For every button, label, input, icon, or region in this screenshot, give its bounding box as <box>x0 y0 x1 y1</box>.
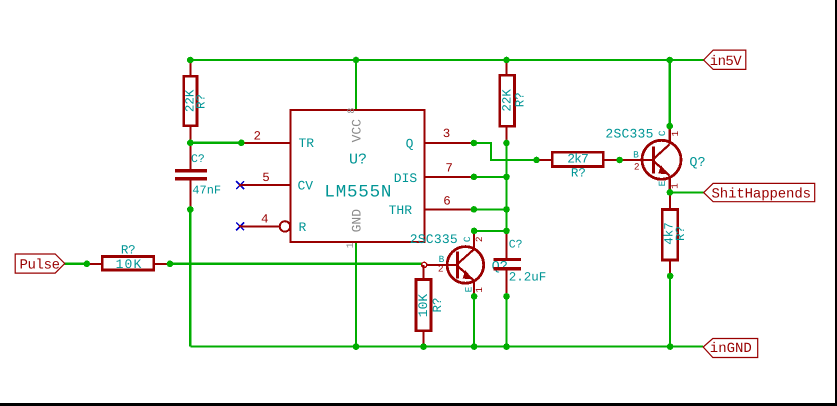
resistor R3 10K horizontal <box>87 244 170 273</box>
svg-text:R?: R? <box>121 244 136 258</box>
svg-text:TR: TR <box>299 136 315 151</box>
junction R5 bottom <box>667 273 674 280</box>
hierarchical label Pulse output <box>15 254 64 273</box>
junction mid net pin7 <box>503 174 510 181</box>
IC U1 LM555N <box>291 108 425 249</box>
capacitor C2 2.2uF <box>494 231 547 297</box>
svg-text:B: B <box>633 150 639 161</box>
wire collector drop to Q1 <box>669 60 671 126</box>
svg-text:1: 1 <box>346 242 357 248</box>
junction pin6 end <box>471 206 478 213</box>
wire DIS stub pin7 <box>474 176 507 178</box>
wire R3 to Q2 base <box>170 263 422 265</box>
svg-text:2: 2 <box>438 264 444 275</box>
pin 6 THR <box>424 208 474 210</box>
wire R5 bottom to ground <box>669 276 671 347</box>
svg-text:C?: C? <box>191 153 205 166</box>
hierarchical label inGND <box>703 339 758 358</box>
junction TR pin end <box>238 140 245 147</box>
junction top rail at R1 <box>187 57 194 64</box>
junction Q1 emitter node <box>667 189 674 196</box>
svg-text:10K: 10K <box>416 294 431 318</box>
svg-text:inGND: inGND <box>710 341 752 357</box>
wire middle vertical net <box>505 143 507 231</box>
wire GND pin1 drop <box>355 241 357 346</box>
wire VCC pin8 drop <box>355 60 357 111</box>
window border bottom <box>0 403 837 406</box>
svg-text:7: 7 <box>445 162 453 176</box>
junction 2k7 left <box>533 157 540 164</box>
svg-text:Q?: Q? <box>689 156 705 171</box>
svg-text:1: 1 <box>474 287 485 293</box>
svg-text:ShitHappends: ShitHappends <box>712 186 812 202</box>
svg-text:R?: R? <box>571 166 586 180</box>
svg-text:2k7: 2k7 <box>567 152 589 167</box>
junction R2 bottom <box>503 140 510 147</box>
wire top power rail <box>190 59 703 61</box>
svg-text:U?: U? <box>349 152 367 169</box>
wire TR stub <box>190 142 241 144</box>
svg-text:10K: 10K <box>116 257 142 272</box>
resistor R2 22K middle <box>500 60 528 143</box>
svg-text:LM555N: LM555N <box>324 182 391 202</box>
junction Q2 emitter <box>471 293 478 300</box>
svg-text:VCC: VCC <box>350 119 365 143</box>
svg-text:E: E <box>464 286 475 292</box>
resistor R6 10K vertical <box>416 265 445 347</box>
resistor R4 2k7 <box>537 152 620 181</box>
svg-text:GND: GND <box>349 209 364 233</box>
pin 7 DIS <box>424 176 474 178</box>
svg-text:2SC335: 2SC335 <box>410 232 458 247</box>
resistor R1 22K left <box>184 60 209 143</box>
svg-text:in5V: in5V <box>710 54 743 70</box>
junction R3 right <box>167 261 174 268</box>
svg-text:3: 3 <box>443 127 451 141</box>
junction R1 bottom <box>187 140 194 147</box>
svg-text:1: 1 <box>669 183 680 189</box>
junction mid net pin6 <box>503 206 510 213</box>
svg-text:C: C <box>462 236 473 242</box>
wire Q2 emitter to ground <box>473 296 475 346</box>
svg-text:R?: R? <box>431 297 445 312</box>
svg-text:DIS: DIS <box>394 171 418 186</box>
svg-text:R?: R? <box>194 94 208 109</box>
svg-text:R: R <box>299 220 307 235</box>
window border right <box>835 0 837 406</box>
junction top rail at R2 <box>503 57 510 64</box>
svg-text:E: E <box>657 180 668 186</box>
junction ground rail U1 <box>353 343 360 350</box>
svg-text:C?: C? <box>509 239 523 252</box>
svg-text:Pulse: Pulse <box>20 257 61 273</box>
wire THR stub pin6 <box>474 208 507 210</box>
junction Pulse wire <box>84 261 91 268</box>
svg-text:CV: CV <box>298 179 314 194</box>
junction 2k7 right <box>616 157 623 164</box>
svg-text:2: 2 <box>254 130 262 144</box>
svg-text:2: 2 <box>474 236 485 242</box>
junction ground rail R6 <box>420 343 427 350</box>
pin 4 R inverted <box>240 225 280 227</box>
junction C1 bottom <box>187 206 194 213</box>
svg-text:47nF: 47nF <box>192 183 221 197</box>
hierarchical label ShitHappends <box>704 183 815 202</box>
pin 3 Q <box>424 142 474 144</box>
transistor Q2 2SC335 bottom middle <box>410 231 508 297</box>
resistor R5 4k7 <box>662 192 688 276</box>
hierarchical label in5V <box>704 50 746 70</box>
wire collector link Q2 to cap <box>474 230 506 232</box>
junction Q1 collector <box>666 123 673 130</box>
junction ground rail Q2 emitter <box>471 343 478 350</box>
no-connect pin 5 <box>236 181 244 189</box>
wire Q1 emitter to ShitHappends <box>670 191 704 193</box>
wire bottom ground rail <box>190 346 703 348</box>
pin 5 CV <box>240 184 290 186</box>
junction top rail at Q1 branch <box>666 57 673 64</box>
svg-text:R?: R? <box>514 92 528 107</box>
junction C2 bottom <box>503 293 510 300</box>
wire Pulse label to R3 <box>65 263 87 265</box>
transistor Q1 2SC335 top right <box>605 126 705 192</box>
svg-text:5: 5 <box>262 171 270 185</box>
junction ground rail C2 <box>503 343 510 350</box>
wire C2 bottom to ground <box>505 296 507 346</box>
svg-text:R?: R? <box>674 226 688 241</box>
junction pin7 end <box>471 174 478 181</box>
junction ground rail R5 <box>667 343 674 350</box>
svg-text:2SC335: 2SC335 <box>605 126 653 141</box>
junction C2 top <box>503 228 510 235</box>
svg-text:C: C <box>657 130 668 136</box>
junction top rail at U1 VCC <box>353 57 360 64</box>
no-connect pin 4 <box>236 223 244 231</box>
svg-text:1: 1 <box>670 131 681 137</box>
capacitor C1 47nF <box>175 143 221 210</box>
svg-text:Q: Q <box>406 137 414 152</box>
wire cap branch down left <box>189 209 191 346</box>
svg-text:2: 2 <box>634 162 640 173</box>
svg-text:4: 4 <box>261 212 269 226</box>
wire Q output jog pin3 <box>474 143 537 160</box>
svg-text:THR: THR <box>389 203 413 218</box>
svg-text:6: 6 <box>443 195 451 209</box>
junction pin3 end <box>471 140 478 147</box>
svg-text:2.2uF: 2.2uF <box>509 270 547 284</box>
junction Q2 collector <box>471 228 478 235</box>
svg-text:22K: 22K <box>501 89 515 112</box>
pin 2 TR <box>241 142 290 144</box>
svg-text:8: 8 <box>347 108 358 114</box>
